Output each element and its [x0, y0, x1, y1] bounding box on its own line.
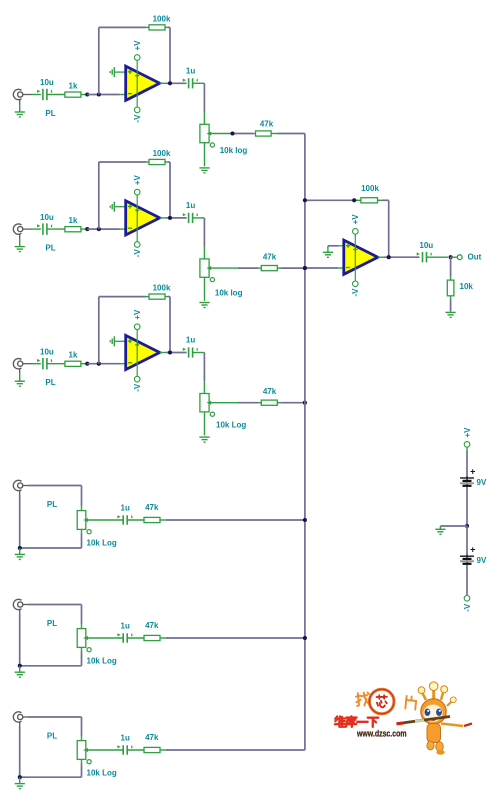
ground at U1 non-inverting input [110, 67, 126, 77]
svg-text:1u: 1u [121, 504, 130, 513]
resistor R11 10k (load) [447, 280, 473, 296]
wire U2 output [160, 217, 187, 219]
wire C1b to pot P1 [193, 83, 205, 125]
junction dot ground rail 4 [18, 546, 22, 550]
bus junction dot stage 3 [303, 401, 307, 405]
svg-text:10k Log: 10k Log [216, 421, 246, 430]
-V terminal (battery) [464, 596, 470, 602]
op-amp U4 body [344, 234, 378, 281]
junction dot U2 output / feedback [168, 216, 172, 220]
op-amp U3 positive supply pin [134, 324, 140, 330]
op-amp U1 V+ supply mark [135, 74, 139, 78]
op-amp U3 negative supply pin [134, 376, 140, 382]
junction dot ground rail 5 [18, 664, 22, 668]
op-amp U3 -V label [133, 383, 142, 392]
label 10k Log (P5) [87, 657, 117, 666]
svg-text:10u: 10u [40, 78, 54, 87]
resistor R1b 100k feedback [149, 14, 171, 30]
ground at U4 non-inverting input [323, 246, 344, 257]
svg-text:1k: 1k [69, 216, 78, 225]
svg-text:47k: 47k [263, 387, 277, 396]
label PL (input 5) [47, 619, 57, 628]
wire U1 output [160, 82, 187, 84]
svg-text:+V: +V [133, 40, 142, 51]
junction dot (R3a lead) [85, 362, 89, 366]
op-amp U1 negative supply pin [134, 107, 140, 113]
feedback wire up-right stage 1 [99, 27, 149, 94]
op-amp U4 -V label [351, 288, 360, 297]
svg-text:9V: 9V [477, 478, 487, 487]
svg-text:-V: -V [133, 383, 142, 392]
op-amp U1 positive supply pin [134, 55, 140, 61]
svg-text:1u: 1u [121, 734, 130, 743]
wire J5 top to P5 [28, 605, 82, 629]
op-amp U4 - input mark [346, 267, 350, 269]
svg-text:10u: 10u [40, 213, 54, 222]
junction dot R10 lead [352, 198, 356, 202]
svg-text:1u: 1u [186, 66, 195, 75]
op-amp U2 V+ supply mark [135, 208, 139, 212]
wire R2c to bus [277, 267, 305, 269]
wire U3 output [160, 352, 187, 354]
wire B2 to -V terminal [466, 565, 468, 596]
resistor R10 100k (mixer feedback) [361, 184, 380, 203]
wire R6 to bus [160, 749, 305, 751]
ground at J1 [15, 104, 25, 117]
feedback wire up-right stage 2 [99, 162, 149, 229]
wire J1 to C1a [31, 94, 41, 96]
resistor R3c 47k [261, 387, 277, 405]
svg-text:1u: 1u [186, 336, 195, 345]
ground at input 6 [15, 777, 25, 788]
wire C1a to R1a [47, 94, 65, 96]
label 9V (B2) [477, 556, 487, 565]
svg-text:PL: PL [45, 109, 55, 118]
wire P5 wiper to C5 [86, 637, 123, 639]
battery B2 9V [460, 555, 474, 566]
junction node feedback 2 [97, 227, 101, 231]
svg-text:+V: +V [133, 174, 142, 185]
resistor R6 47k [144, 733, 160, 753]
svg-text:PL: PL [45, 378, 55, 387]
bus junction dot stage 2 [303, 266, 307, 270]
op-amp U3 - input mark [128, 362, 132, 364]
svg-text:100k: 100k [153, 284, 171, 293]
svg-text:47k: 47k [263, 253, 277, 262]
op-amp U4 V+ supply mark [353, 247, 357, 251]
input jack J6 [13, 712, 28, 727]
wire midpoint to battery B2 [466, 526, 468, 555]
svg-text:1u: 1u [121, 622, 130, 631]
bus corner stage 1 [0, 0, 1, 1]
ground at U3 non-inverting input [110, 336, 126, 346]
battery B2 + mark [470, 544, 475, 554]
wire to Out terminal [451, 256, 458, 258]
label PL (input 6) [47, 732, 57, 741]
wire P1 wiper to R1c [209, 133, 255, 135]
wire P2 bottom to ground [204, 277, 206, 301]
ground at J3 [15, 373, 25, 386]
svg-text:10k Log: 10k Log [87, 769, 117, 778]
input jack J4 [13, 480, 28, 495]
op-amp U2 +V label [133, 174, 142, 185]
battery B1 + mark [470, 466, 475, 476]
feedback wire right-down stage 2 [165, 162, 170, 218]
op-amp U4 positive supply pin [353, 229, 359, 235]
potentiometer P1 10k log [200, 124, 215, 147]
resistor R5 47k [144, 621, 160, 641]
capacitor C2a 10u [37, 213, 54, 235]
svg-text:10k: 10k [460, 282, 474, 291]
watermark character 找 [355, 692, 370, 706]
wire P6 wiper to C6 [86, 749, 123, 751]
wire P6 bottom to ground rail [20, 759, 82, 777]
wire J5 sleeve down [19, 614, 21, 666]
label PL (input 2) [45, 244, 55, 253]
junction node feedback 1 [97, 92, 101, 96]
wire node to U1 inverting input [87, 94, 126, 96]
op-amp U3 + input mark [128, 339, 132, 343]
label 10k log (P2) [215, 289, 243, 298]
svg-text:PL: PL [47, 619, 57, 628]
label Out [468, 253, 482, 262]
svg-text:10u: 10u [40, 347, 54, 356]
-V label (battery) [463, 603, 472, 612]
bus junction dot input 4 [303, 518, 307, 522]
watermark text www.dzsc.com [356, 729, 406, 739]
ground at U2 non-inverting input [110, 202, 126, 212]
svg-text:-V: -V [351, 288, 360, 297]
svg-text:100k: 100k [153, 14, 171, 23]
svg-text:47k: 47k [260, 120, 274, 129]
junction dot U4 output / feedback [387, 255, 391, 259]
wire R5 to bus [160, 637, 305, 639]
wire R1c to bus [271, 133, 305, 135]
svg-text:PL: PL [47, 732, 57, 741]
wire R1a to node [81, 94, 87, 96]
op-amp U3 +V label [133, 309, 142, 320]
ground at P3 [199, 437, 209, 442]
wire midpoint to ground [440, 526, 467, 529]
op-amp U2 positive supply pin [134, 189, 140, 195]
ground at R11 [446, 312, 456, 317]
wire J2 to C2a [31, 228, 41, 230]
junction dot ground rail 6 [18, 775, 22, 779]
watermark magnifier with 芯 [369, 689, 394, 714]
label 9V (B1) [477, 478, 487, 487]
capacitor C3a 10u [37, 347, 54, 369]
input jack J1 [13, 89, 31, 104]
potentiometer P5 10k log [77, 629, 91, 652]
capacitor C1a 10u [37, 78, 54, 100]
svg-text:10k Log: 10k Log [87, 657, 117, 666]
svg-text:10k Log: 10k Log [87, 539, 117, 548]
op-amp U2 + input mark [128, 204, 132, 208]
capacitor C7 10u (output) [417, 241, 434, 263]
svg-text:47k: 47k [145, 733, 159, 742]
wire J3 to C3a [31, 363, 41, 365]
svg-text:10k log: 10k log [215, 289, 243, 298]
op-amp U4 negative supply pin [353, 281, 359, 287]
wire P2 wiper to R2c [209, 267, 261, 269]
op-amp U1 -V label [133, 114, 142, 123]
wire U4 output [378, 256, 420, 258]
capacitor C1b 1u [183, 66, 197, 88]
capacitor C2b 1u [183, 201, 197, 223]
svg-text:9V: 9V [477, 556, 487, 565]
resistor R3b 100k feedback [149, 284, 171, 300]
watermark mascot [397, 682, 473, 755]
wire R4 to bus [160, 519, 305, 521]
junction dot (R2a lead) [85, 227, 89, 231]
input jack J2 [13, 224, 31, 239]
label PL (input 1) [45, 109, 55, 118]
+V terminal (battery) [464, 442, 470, 448]
ground at P1 [199, 168, 209, 173]
svg-text:1u: 1u [186, 201, 195, 210]
op-amp U2 -V label [133, 249, 142, 258]
wire C3a to R3a [47, 363, 65, 365]
junction dot battery midpoint [465, 524, 469, 528]
junction dot mixer feedback [303, 198, 307, 202]
svg-text:100k: 100k [361, 184, 379, 193]
Out terminal [457, 255, 462, 260]
resistor R1c 47k [256, 120, 274, 137]
junction dot output node [449, 255, 453, 259]
op-amp U3 V+ supply mark [135, 343, 139, 347]
junction dot wiper net 1 [230, 131, 234, 135]
svg-text:+V: +V [133, 309, 142, 320]
ground at J2 [15, 239, 25, 252]
battery B1 9V [460, 477, 474, 488]
svg-text:PL: PL [45, 244, 55, 253]
junction node feedback 3 [97, 362, 101, 366]
svg-text:-V: -V [133, 249, 142, 258]
junction dot U3 output / feedback [168, 350, 172, 354]
wire +V to battery B1 [466, 447, 468, 477]
svg-text:47k: 47k [145, 503, 159, 512]
wire P3 wiper to R3c [209, 402, 261, 404]
bus junction dot input 5 [303, 636, 307, 640]
svg-text:47k: 47k [145, 621, 159, 630]
op-amp U1 body [126, 60, 160, 107]
wire C4 to R4 [127, 519, 144, 521]
wire C2b to pot P2 [193, 218, 205, 260]
svg-text:100k: 100k [153, 149, 171, 158]
svg-text:10u: 10u [419, 241, 433, 250]
potentiometer P6 10k log [77, 741, 91, 764]
svg-text:-V: -V [133, 114, 142, 123]
wire output node to R11 [450, 257, 452, 280]
wire J4 top to P4 [28, 486, 82, 511]
input jack J5 [13, 599, 28, 614]
feedback wire right-down stage 3 [165, 297, 170, 353]
svg-text:1k: 1k [69, 81, 78, 90]
junction dot U1 output / feedback [168, 81, 172, 85]
resistor R2c 47k [261, 253, 277, 271]
op-amp U1 + input mark [128, 70, 132, 74]
wire node to U2 inverting input [87, 228, 126, 230]
op-amp U2 - input mark [128, 227, 132, 229]
wire B1 to midpoint [466, 487, 468, 526]
capacitor C3b 1u [183, 336, 197, 358]
svg-text:10k log: 10k log [220, 146, 248, 155]
op-amp U4 +V label [351, 214, 360, 225]
junction dot (R1a lead) [85, 92, 89, 96]
wire C2a to R2a [47, 228, 65, 230]
op-amp U4 + input mark [346, 244, 350, 248]
svg-text:www.dzsc.com: www.dzsc.com [356, 729, 406, 739]
potentiometer P2 10k log [200, 259, 215, 282]
capacitor C6 1u [117, 734, 131, 755]
label 10k Log (P3) [216, 421, 246, 430]
wire R3a to node [81, 363, 87, 365]
svg-text:Out: Out [468, 253, 482, 262]
summing bus wire [304, 134, 306, 751]
potentiometer P3 10k log [200, 394, 215, 417]
label PL (input 3) [45, 378, 55, 387]
wire bus to R10 (mixer feedback) [305, 199, 361, 201]
capacitor C5 1u [117, 622, 131, 643]
svg-text:1k: 1k [69, 351, 78, 360]
wire C7 to output node [427, 256, 449, 258]
label 10k Log (P6) [87, 769, 117, 778]
watermark character 片 [405, 696, 416, 710]
wire R3c to bus [277, 402, 305, 404]
wire P4 wiper to C4 [86, 519, 123, 521]
op-amp U2 negative supply pin [134, 242, 140, 248]
svg-text:-V: -V [463, 603, 472, 612]
junction dot bus / U4 input [303, 266, 307, 270]
label 10k Log (P4) [87, 539, 117, 548]
wire J6 sleeve down [19, 727, 21, 778]
wire bus to U4 inverting input [305, 267, 344, 269]
label PL (input 4) [47, 500, 57, 509]
resistor R3a 1k [65, 351, 81, 367]
ground at input 4 [15, 548, 25, 559]
capacitor C4 1u [117, 504, 131, 525]
input jack J3 [13, 358, 31, 373]
wire P5 bottom to ground rail [20, 647, 82, 665]
resistor R2a 1k [65, 216, 81, 232]
wire J4 sleeve down [19, 495, 21, 548]
resistor R4 47k [144, 503, 160, 523]
mixer feedback wire right-down [378, 200, 389, 257]
resistor R2b 100k feedback [149, 149, 171, 165]
wire J6 top to P6 [28, 717, 82, 741]
ground at battery midpoint [435, 529, 445, 534]
svg-text:+V: +V [463, 427, 472, 438]
op-amp U1 +V label [133, 40, 142, 51]
ground at input 5 [15, 666, 25, 677]
svg-text:+: + [470, 544, 475, 554]
label 10k log (P1) [220, 146, 248, 155]
+V label (battery) [463, 427, 472, 438]
feedback wire right-down stage 1 [165, 27, 170, 83]
wire C6 to R6 [127, 749, 144, 751]
watermark text 维库一下 [335, 716, 378, 727]
svg-text:+: + [470, 466, 475, 476]
wire P4 bottom to ground rail [20, 529, 82, 548]
wire C3b to pot P3 [193, 353, 205, 395]
svg-text:+V: +V [351, 214, 360, 225]
wire P3 bottom to ground [204, 412, 206, 436]
svg-text:PL: PL [47, 500, 57, 509]
wire R11 to ground [450, 296, 452, 312]
op-amp U3 body [126, 330, 160, 377]
wire node to U3 inverting input [87, 363, 126, 365]
feedback wire up-right stage 3 [99, 297, 149, 364]
potentiometer P4 10k log [77, 511, 91, 534]
ground at P2 [199, 303, 209, 308]
op-amp U2 body [126, 195, 160, 242]
resistor R1a 1k [65, 81, 81, 97]
wire P1 bottom to ground [204, 143, 206, 167]
wire R2a to node [81, 228, 87, 230]
wire C5 to R5 [127, 637, 144, 639]
op-amp U1 - input mark [128, 93, 132, 95]
